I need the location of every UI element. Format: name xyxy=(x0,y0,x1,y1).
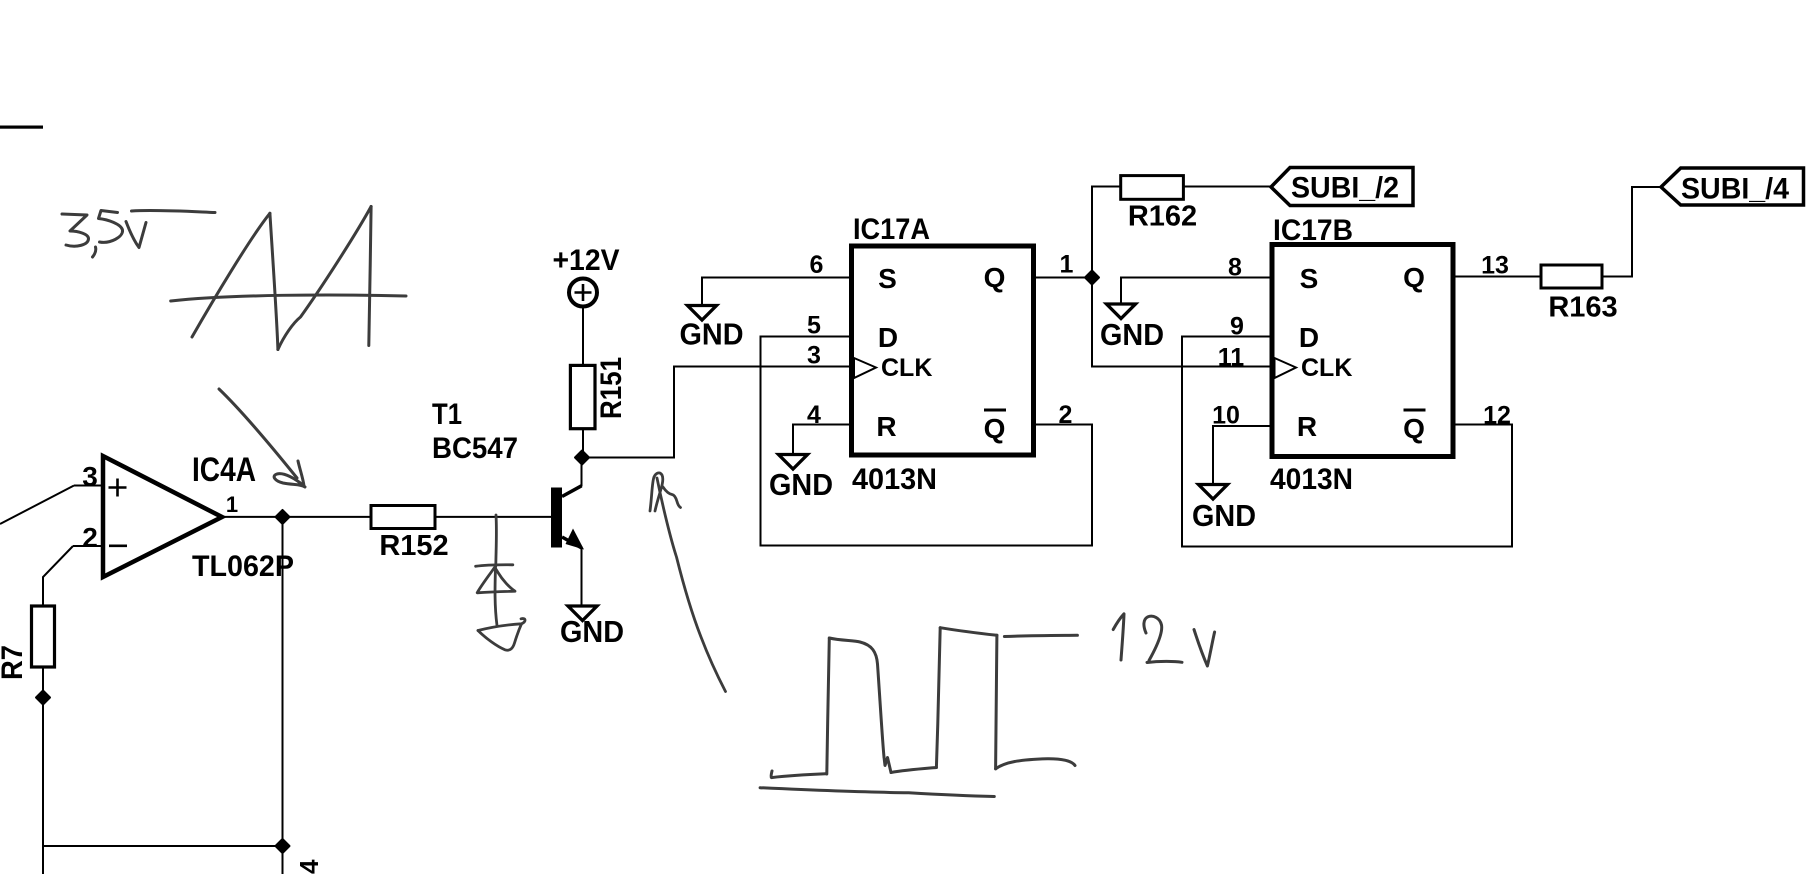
svg-text:4: 4 xyxy=(294,859,324,874)
svg-text:R: R xyxy=(1297,411,1317,442)
wire R152 to base xyxy=(435,516,551,518)
wire Q pin 13 xyxy=(1453,276,1541,278)
svg-text:3: 3 xyxy=(807,342,821,370)
svg-text:GND: GND xyxy=(1100,317,1164,352)
svg-text:SUBI_/4: SUBI_/4 xyxy=(1681,173,1789,206)
svg-text:R151: R151 xyxy=(595,357,628,419)
svg-text:GND: GND xyxy=(680,317,744,352)
wire R162 to flag xyxy=(1183,186,1271,188)
svg-text:GND: GND xyxy=(769,467,833,502)
svg-text:6: 6 xyxy=(810,251,824,279)
net flag SUBI_/2 xyxy=(1271,168,1413,206)
svg-text:CLK: CLK xyxy=(1301,354,1352,382)
svg-text:1: 1 xyxy=(226,492,238,517)
wire op-amp pin 3 input xyxy=(0,486,105,525)
node Q1 junction xyxy=(1085,271,1099,285)
ground at IC17A S xyxy=(680,306,744,352)
svg-text:Q: Q xyxy=(984,262,1006,293)
resistor R7 xyxy=(0,606,55,874)
svg-text:S: S xyxy=(1300,263,1319,294)
wire top-left dash xyxy=(0,126,43,129)
wire bottom feedback xyxy=(43,517,283,874)
flip-flop IC17A xyxy=(852,213,1034,496)
wire R163 to flag xyxy=(1602,187,1661,277)
wire Q-bar to D feedback loop B xyxy=(1182,337,1512,547)
wire Q-bar to D feedback loop xyxy=(761,337,1093,546)
svg-text:S: S xyxy=(878,263,897,294)
sawtooth waveform sketch xyxy=(171,207,406,350)
hand-drawn diode sketch xyxy=(476,515,525,650)
net flag SUBI_/4 xyxy=(1661,168,1804,206)
svg-text:4013N: 4013N xyxy=(852,463,937,496)
svg-text:5: 5 xyxy=(807,312,821,340)
IC17A pin numbers xyxy=(807,251,1074,430)
svg-text:R: R xyxy=(876,411,896,442)
resistor R162 xyxy=(1121,176,1197,233)
svg-text:11: 11 xyxy=(1218,344,1245,372)
svg-text:R162: R162 xyxy=(1128,201,1197,233)
svg-text:R152: R152 xyxy=(379,530,448,562)
wire node to R162 xyxy=(1092,187,1121,278)
wire R pin 4 xyxy=(793,425,852,455)
resistor R152 xyxy=(371,506,449,563)
ground at IC17B S xyxy=(1100,304,1164,352)
svg-text:D: D xyxy=(1299,322,1319,353)
hand-drawn square wave sketch xyxy=(760,628,1077,797)
wire op-amp pin 2 input xyxy=(43,546,105,606)
wire collector to CLK xyxy=(582,367,851,458)
svg-text:CLK: CLK xyxy=(881,354,932,382)
ground at IC17A R xyxy=(769,455,833,503)
node collector junction xyxy=(575,451,589,465)
hand-drawn squiggle xyxy=(650,473,726,692)
svg-text:3: 3 xyxy=(82,461,98,492)
ground below emitter xyxy=(560,606,624,649)
svg-text:R7: R7 xyxy=(0,645,29,680)
flip-flop IC17B xyxy=(1270,214,1453,496)
node below R7 xyxy=(36,691,50,705)
svg-text:1: 1 xyxy=(1060,251,1074,279)
wire S pin 8 xyxy=(1121,278,1272,305)
svg-text:IC17A: IC17A xyxy=(853,213,930,246)
power +12V xyxy=(553,244,620,366)
node op-amp output xyxy=(276,510,290,524)
svg-text:Q: Q xyxy=(1403,262,1425,293)
svg-text:T1: T1 xyxy=(432,398,462,431)
svg-text:TL062P: TL062P xyxy=(192,550,294,583)
svg-text:2: 2 xyxy=(82,522,98,553)
resistor R151 xyxy=(570,357,628,429)
ground at IC17B R xyxy=(1192,485,1256,534)
svg-text:GND: GND xyxy=(560,614,624,649)
wire R pin 10 xyxy=(1213,426,1272,485)
svg-text:+12V: +12V xyxy=(553,244,620,277)
op-amp IC4A TL062P xyxy=(82,451,294,583)
wire node to IC17B CLK xyxy=(1092,278,1272,367)
handwritten arrow to IC4A xyxy=(219,389,305,487)
wire R151 to collector xyxy=(582,429,584,458)
handwritten annotation 3,5V xyxy=(62,210,215,257)
wire S pin 6 xyxy=(702,278,852,306)
svg-text:SUBI_/2: SUBI_/2 xyxy=(1291,172,1399,205)
svg-text:IC17B: IC17B xyxy=(1273,214,1353,247)
svg-text:R163: R163 xyxy=(1548,292,1617,324)
svg-text:13: 13 xyxy=(1481,252,1509,280)
transistor T1 BC547 xyxy=(432,398,584,606)
wire op-amp output pin 1 xyxy=(222,516,371,518)
svg-text:BC547: BC547 xyxy=(432,432,518,465)
svg-text:D: D xyxy=(878,322,898,353)
svg-text:IC4A: IC4A xyxy=(192,451,256,489)
svg-text:Q: Q xyxy=(1403,413,1425,444)
IC17B pin numbers xyxy=(1212,252,1511,430)
svg-text:GND: GND xyxy=(1192,498,1256,533)
resistor R163 xyxy=(1541,265,1618,324)
svg-text:Q: Q xyxy=(984,413,1006,444)
svg-text:4013N: 4013N xyxy=(1270,463,1353,496)
handwritten 12V label xyxy=(1113,614,1214,666)
wire Q pin 1 xyxy=(1034,277,1093,279)
node bottom junction xyxy=(276,839,290,853)
